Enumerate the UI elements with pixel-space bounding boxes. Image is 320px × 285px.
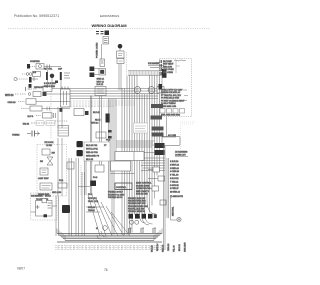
door box2 marks — [42, 170, 47, 173]
svg-text:1 BLK-10: 1 BLK-10 — [170, 161, 179, 163]
svg-text:POWER CORD: POWER CORD — [97, 42, 99, 58]
ice maker bottom dot — [44, 214, 48, 217]
door inner box1 — [42, 149, 50, 155]
svg-text:SEE CHART 2: SEE CHART 2 — [136, 190, 150, 193]
row2 box — [33, 92, 41, 97]
left door dashed box — [37, 145, 67, 197]
right box above ladder — [162, 137, 180, 146]
S2 inner dark — [100, 70, 104, 74]
row2 marks — [15, 93, 26, 95]
svg-text:ORN-23: ORN-23 — [8, 102, 17, 104]
freezer lamp symbol — [118, 44, 123, 49]
junction box J2 — [95, 87, 106, 96]
svg-text:P15 RED 16 DC: P15 RED 16 DC — [108, 197, 123, 199]
svg-text:5-2 BLK WHT: 5-2 BLK WHT — [44, 83, 57, 85]
row6 light boxes — [36, 121, 44, 125]
node L1 L2 marks top — [96, 32, 104, 34]
power pair box mid — [96, 132, 106, 138]
row2 dark bits — [43, 92, 47, 96]
svg-text:BLK-10 P12: BLK-10 P12 — [86, 145, 98, 147]
svg-text:RED-16: RED-16 — [163, 244, 165, 252]
water valve dark blob — [62, 205, 70, 213]
power chain vertical pair down — [100, 96, 102, 165]
svg-text:ORN-23: ORN-23 — [168, 243, 170, 251]
svg-text:TAN-41: TAN-41 — [88, 209, 96, 212]
dark bit right of small box — [85, 111, 89, 115]
svg-text:P13 BLK 10 RLY: P13 BLK 10 RLY — [108, 192, 124, 194]
mid-right label dark 4 — [152, 133, 164, 137]
right vertical pair B — [167, 158, 169, 218]
wire TB1 down — [101, 44, 103, 59]
svg-text:P4 BLU THERM: P4 BLU THERM — [161, 103, 176, 105]
faint door boundary dashed — [180, 122, 195, 150]
row2 wire right — [47, 93, 70, 95]
svg-text:10 BRN-44: 10 BRN-44 — [170, 192, 181, 194]
svg-text:WHT 14: WHT 14 — [97, 81, 105, 83]
control board box — [115, 183, 132, 190]
svg-text:THERM: THERM — [12, 135, 20, 137]
left row1 label marks — [26, 87, 31, 91]
corner wire to lamp — [171, 219, 177, 221]
horizontal links over diagonals — [86, 207, 104, 212]
capacitor bank blob 5 small — [154, 214, 157, 218]
capacitor bank blob 4 — [148, 214, 153, 219]
svg-text:BLK-12: BLK-12 — [93, 112, 101, 114]
svg-text:TAN 41: TAN 41 — [23, 123, 31, 126]
row3 dark mark — [29, 77, 32, 83]
L wire with label under box — [162, 131, 176, 137]
secondary vertical pair left — [109, 99, 117, 235]
svg-text:3 RED-16: 3 RED-16 — [170, 168, 180, 170]
row5 box — [43, 113, 53, 118]
inner divider — [133, 152, 135, 161]
svg-text:ICE MAKER: ICE MAKER — [148, 62, 160, 65]
junction blob — [29, 84, 32, 88]
S1 inner marks — [101, 61, 104, 63]
main horizontal bus — [70, 89, 159, 99]
bottom nested bundle lines — [57, 234, 162, 243]
row7 symbol bars — [32, 131, 35, 137]
mid-right label dark 3 — [152, 127, 164, 131]
svg-text:LAMP 120V: LAMP 120V — [38, 177, 49, 180]
svg-text:MAIN CONTROL: MAIN CONTROL — [136, 182, 152, 185]
scatter box stubs — [148, 170, 158, 189]
svg-text:LH RH: LH RH — [46, 145, 53, 147]
svg-text:6 BLU-22: 6 BLU-22 — [170, 178, 179, 180]
inner light box in bundle — [134, 123, 148, 133]
svg-text:4 ORN-23: 4 ORN-23 — [170, 171, 180, 173]
dashes mid-left — [55, 120, 68, 122]
dark mark a — [108, 130, 112, 133]
svg-text:SW: SW — [52, 153, 55, 155]
dark mark b — [108, 136, 112, 139]
lamp wire down — [119, 49, 121, 52]
bottom-left vertical pair d — [82, 172, 85, 236]
lamp switch box — [117, 51, 125, 58]
aux relay dark blob — [91, 181, 97, 187]
capacitor top pins — [62, 87, 68, 90]
capacitor bank blob 1 — [129, 214, 134, 219]
small box right low — [160, 200, 166, 205]
svg-text:BLU-22: BLU-22 — [179, 243, 181, 251]
lamp blob B — [90, 73, 95, 78]
bundle corner bends into bottom — [140, 200, 157, 225]
lamp lower box — [117, 59, 124, 64]
svg-text:YEL CRSH: YEL CRSH — [163, 72, 173, 74]
svg-text:Publication No. 5995512371: Publication No. 5995512371 — [14, 14, 59, 18]
mullion big box — [111, 161, 131, 171]
dispenser row end dashes — [183, 90, 188, 101]
connector plug dark block — [162, 69, 167, 78]
evaporator fan motor FM1 — [134, 87, 141, 94]
ladder box lower-left — [58, 126, 69, 137]
dispenser pin marks column — [160, 60, 162, 75]
cluster box lower left — [58, 183, 67, 188]
svg-text:RLY-2: RLY-2 — [95, 120, 101, 122]
svg-text:8 GRY-35: 8 GRY-35 — [170, 185, 180, 187]
svg-text:P21 WHT FRZ FAN: P21 WHT FRZ FAN — [128, 200, 146, 203]
svg-text:EW26SS65GS: EW26SS65GS — [100, 14, 119, 18]
J2 inner text — [97, 89, 105, 93]
row3 box — [26, 99, 36, 104]
svg-text:GRN-GND P9: GRN-GND P9 — [86, 156, 100, 158]
component box right of door box — [67, 162, 74, 169]
row4 dash — [21, 108, 30, 110]
dispenser bottom boxes row — [160, 109, 165, 114]
start device box — [33, 72, 41, 77]
L wire below mullion — [111, 173, 135, 175]
condenser fan motor FM2 — [148, 87, 155, 94]
central vertical bundle — [122, 76, 162, 236]
svg-text:BLK 12: BLK 12 — [97, 84, 104, 86]
lamp blob A — [90, 67, 95, 72]
run capacitor block — [61, 89, 71, 107]
bottom strip end ticks — [58, 246, 162, 250]
bottom trio mark 1 — [129, 228, 132, 233]
GRN label dark 2 — [155, 150, 165, 155]
bottom-left vertical pair a — [56, 196, 59, 236]
svg-text:P8 BRN ICE MTR AC: P8 BRN ICE MTR AC — [161, 91, 181, 94]
svg-text:COMPRSR: COMPRSR — [30, 61, 40, 63]
verticals from text block down — [85, 161, 92, 195]
ice maker plus mark — [36, 205, 40, 209]
svg-text:CAP: CAP — [58, 68, 63, 71]
lamp switch inner marks — [118, 54, 123, 56]
lock box below — [95, 165, 104, 172]
TB1 inner marks — [104, 39, 108, 43]
svg-text:08/07: 08/07 — [17, 267, 25, 271]
svg-text:RED 8 GRN: RED 8 GRN — [44, 86, 55, 88]
row5 bracket — [54, 113, 56, 118]
door valve hourglass — [47, 157, 53, 165]
row1 dashes — [31, 88, 37, 90]
cluster dark bar 2 — [60, 72, 62, 80]
svg-text:WHT-14 P11: WHT-14 P11 — [86, 149, 99, 151]
bottom trio mark 2 — [141, 228, 144, 233]
bottom-left vertical pair b — [69, 158, 72, 236]
row2 wire left — [22, 73, 26, 75]
svg-text:P14 WHT 14 NEU: P14 WHT 14 NEU — [108, 194, 125, 196]
svg-text:WHT-13: WHT-13 — [5, 95, 14, 97]
cluster vertical wire — [48, 70, 62, 89]
dispenser bracket — [176, 60, 180, 73]
ice label underline — [148, 65, 164, 67]
svg-text:7 TAN-41: 7 TAN-41 — [170, 180, 179, 183]
svg-text:MOLD: MOLD — [45, 196, 51, 198]
svg-text:P20 BLK RUN CAP: P20 BLK RUN CAP — [128, 197, 146, 200]
svg-text:FZ DOOR: FZ DOOR — [45, 142, 55, 144]
row3 dash — [18, 101, 25, 103]
svg-text:RLY OVL: RLY OVL — [44, 69, 53, 71]
boundary dashed lower-left — [80, 165, 82, 196]
row3 bits — [32, 77, 38, 81]
svg-text:ORN CUBE: ORN CUBE — [163, 69, 174, 71]
row1 wire right — [52, 88, 70, 90]
bottom trio mark 3 — [153, 228, 156, 233]
circle bottom mid-left — [103, 226, 108, 231]
cluster dark bar 1 — [46, 72, 48, 80]
svg-text:RED-16 P10: RED-16 P10 — [86, 152, 99, 154]
wire lamps to chain — [94, 68, 99, 70]
row3 wire — [36, 101, 70, 103]
svg-text:P6 PNK MOLD HTR: P6 PNK MOLD HTR — [161, 98, 180, 100]
connector band CN1 rails — [128, 70, 165, 72]
cluster marks right — [64, 73, 70, 78]
ice maker inner loop box — [36, 201, 53, 217]
GRN label dark 1 — [155, 143, 165, 148]
svg-text:J2 HARNESS: J2 HARNESS — [175, 151, 188, 154]
terminal text block — [84, 142, 110, 161]
switch box S1 — [100, 59, 105, 67]
svg-text:YEL-30: YEL-30 — [174, 244, 176, 252]
freezer boundary dashed upper — [126, 52, 128, 75]
bundle corner turns right — [154, 229, 162, 241]
svg-text:CONN LIST: CONN LIST — [175, 155, 186, 157]
ice maker small box on loop — [42, 199, 47, 203]
dark blob on row4 — [60, 108, 63, 112]
row1 box — [43, 86, 52, 91]
ladder box rungs — [58, 128, 69, 133]
row7 diamond — [27, 132, 40, 136]
cluster mid dark bits — [55, 81, 58, 84]
right dispenser dashed box — [160, 59, 192, 117]
nested boxes upper mullion — [115, 152, 144, 161]
small lamp circle low right — [177, 217, 181, 221]
terminal box TB1 — [103, 37, 109, 45]
mid-right label dark 2 — [151, 116, 163, 120]
wires down from cap — [58, 107, 62, 196]
bottom dotted strip — [55, 246, 164, 250]
svg-text:2 WHT-14: 2 WHT-14 — [170, 164, 180, 166]
svg-text:FOR DC SIG: FOR DC SIG — [136, 194, 148, 196]
svg-text:WHT NEUT: WHT NEUT — [163, 64, 174, 66]
start relay circles — [26, 73, 29, 76]
small box below capacitor — [74, 109, 84, 116]
GRN label feed wires — [116, 141, 154, 153]
svg-text:GRN 1A: GRN 1A — [97, 78, 105, 81]
dark component mid chain — [106, 114, 110, 123]
row1 tick — [47, 65, 50, 69]
svg-text:ICE MAKER: ICE MAKER — [31, 195, 43, 198]
dotted rule under title — [8, 28, 210, 30]
breaker box S2 — [99, 69, 106, 76]
lamp lower inner mark — [119, 60, 123, 62]
capacitor inner plates — [64, 91, 67, 105]
svg-text:BLU-22: BLU-22 — [86, 159, 94, 161]
overload inner circle — [39, 65, 42, 68]
svg-text:WIRING DIAGRAM: WIRING DIAGRAM — [91, 23, 127, 28]
ice maker dashed box — [31, 193, 58, 220]
svg-text:RED AUG: RED AUG — [163, 65, 172, 68]
row2 circle — [28, 93, 31, 96]
diagonal wires into bundle — [88, 195, 130, 236]
scatter box A — [153, 167, 160, 172]
door box3 marks — [42, 186, 51, 189]
svg-text:CONTROL: CONTROL — [116, 187, 127, 189]
svg-text:GRN-GND: GRN-GND — [185, 242, 187, 252]
connector band CN1 ticks — [129, 71, 161, 75]
relay blob R1 — [77, 141, 83, 147]
aux relay wire — [78, 186, 90, 188]
svg-text:5 YEL-30: 5 YEL-30 — [170, 175, 179, 177]
svg-text:P23 ORN COND FAN: P23 ORN COND FAN — [128, 205, 148, 208]
mid-right label dark 1 — [151, 104, 163, 108]
horizontal link lines mid — [141, 158, 165, 171]
right label row underline — [175, 156, 188, 158]
row3 run winding component — [14, 77, 17, 80]
row4 box — [30, 106, 42, 111]
dispenser header squiggle — [174, 59, 186, 62]
scatter box B — [158, 176, 165, 181]
right vertical wire low — [170, 198, 172, 220]
svg-text:WHT-14: WHT-14 — [91, 123, 99, 125]
bottom-left vertical pair c — [76, 158, 79, 236]
svg-text:BOARD EDGE: BOARD EDGE — [136, 184, 150, 187]
bundle corner turns left — [57, 229, 65, 241]
svg-text:P24 YEL AUX SW: P24 YEL AUX SW — [128, 207, 144, 210]
row1 dashed wire — [30, 66, 36, 68]
scatter box C — [152, 186, 159, 191]
row6 long dashed wire — [31, 122, 56, 124]
svg-text:76: 76 — [104, 268, 108, 272]
row3 dashed body — [17, 78, 28, 80]
svg-text:(*) SEE NOTE: (*) SEE NOTE — [170, 196, 183, 198]
svg-text:SW1 SW2 SW3 SW4: SW1 SW2 SW3 SW4 — [161, 115, 181, 117]
wire below dispenser box — [166, 117, 168, 137]
svg-text:P9 BLK WTR VLV 120V: P9 BLK WTR VLV 120V — [161, 90, 183, 92]
small circle b — [135, 220, 139, 224]
compressor row1 plug dark — [27, 64, 30, 69]
row4 wire plus mark — [42, 107, 70, 111]
wire lamp-boxes down — [119, 64, 121, 91]
capacitor bank blob 2 — [135, 214, 140, 219]
small circle a — [130, 220, 134, 224]
row5 marks — [36, 115, 41, 117]
aux box right of fans — [157, 87, 164, 94]
door inner box3 — [40, 183, 52, 190]
wire row1 right — [44, 66, 61, 68]
door inner box2 — [40, 168, 48, 175]
corner wire lower — [97, 231, 107, 239]
compartment dashed boundary — [50, 84, 52, 139]
cluster dark circle — [50, 74, 54, 78]
extra vertical pair x90 — [90, 96, 92, 143]
capacitor bank blob 3 — [142, 214, 147, 219]
inner box marks — [135, 126, 146, 131]
relay blob R2 — [77, 150, 83, 156]
svg-text:BLU 9: BLU 9 — [28, 116, 34, 118]
svg-text:9 PNK-27: 9 PNK-27 — [170, 188, 180, 190]
svg-text:P7 TAN FILL SOL VLV: P7 TAN FILL SOL VLV — [161, 94, 182, 97]
dispenser blob — [159, 84, 163, 90]
ice maker stub wires — [31, 206, 58, 212]
right vertical pair A — [164, 146, 166, 250]
svg-text:BLK DISP: BLK DISP — [163, 61, 173, 63]
ice maker right marks — [48, 203, 52, 208]
power cord plug P1 — [105, 31, 110, 36]
svg-text:P25 BLU SENSOR: P25 BLU SENSOR — [128, 211, 146, 213]
dotted band bus — [70, 101, 135, 107]
svg-text:NEUTRAL: NEUTRAL — [172, 206, 175, 216]
overload protector box — [36, 64, 44, 70]
svg-text:P5 WHT COMMON NEUT: P5 WHT COMMON NEUT — [161, 100, 185, 102]
